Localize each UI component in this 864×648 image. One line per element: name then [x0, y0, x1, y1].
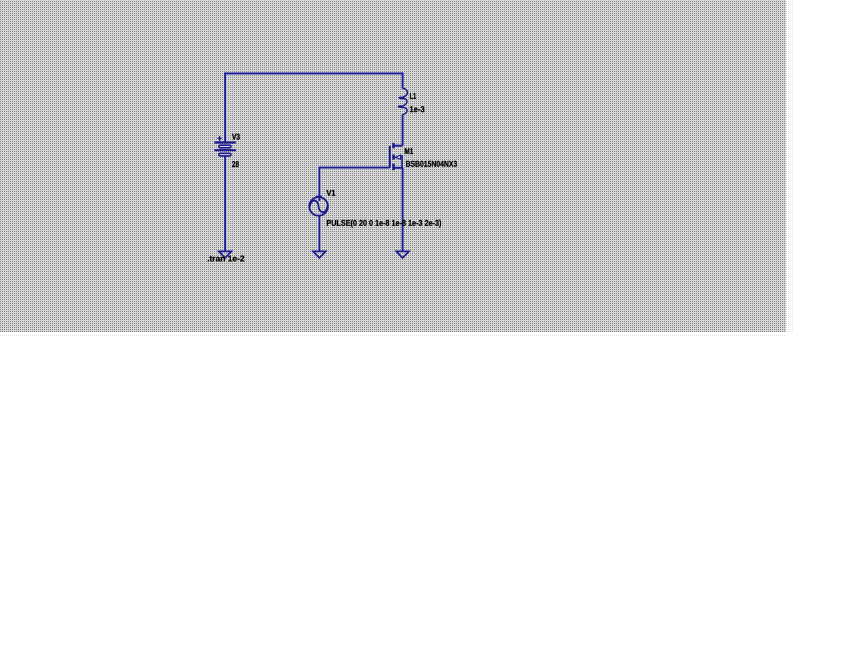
- wire right mid: [402, 115, 404, 145]
- wire source vertical: [402, 168, 404, 252]
- wire top: [225, 72, 403, 74]
- spice directive .tran: [208, 256, 245, 262]
- schematic canvas background: [0, 0, 786, 332]
- value 28: [232, 161, 239, 167]
- value BSB015N04NX3: [406, 161, 457, 167]
- wire halo: [225, 72, 403, 251]
- label M1: [405, 148, 413, 154]
- ground (left): [219, 251, 232, 258]
- label L1: [410, 93, 416, 99]
- ground (right): [396, 251, 409, 258]
- inductor L1: [398, 88, 408, 115]
- voltage source V3 (battery): [214, 136, 235, 156]
- label V3: [232, 134, 240, 140]
- transistor M1 (NMOS): [390, 143, 403, 170]
- value PULSE: [327, 220, 441, 228]
- wire V1 bottom: [318, 216, 320, 252]
- wire right upper: [402, 72, 404, 88]
- value 1e-3: [410, 106, 425, 112]
- ground (middle): [313, 251, 326, 258]
- wire left lower: [224, 156, 226, 252]
- wire gate: [319, 167, 389, 169]
- voltage source V1 (pulse): [309, 196, 328, 215]
- label V1: [327, 190, 336, 196]
- wire left upper: [224, 72, 226, 142]
- wire V1 top: [318, 167, 320, 201]
